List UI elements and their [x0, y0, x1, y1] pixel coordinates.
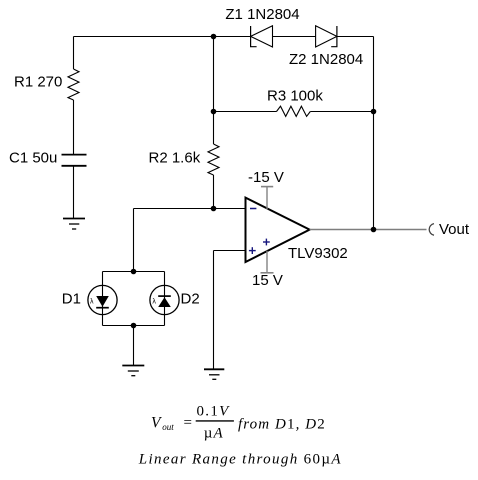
wire noninverting input horizontal: [214, 250, 246, 252]
wire R3 left segment: [214, 111, 277, 113]
ground under photodiodes: [122, 366, 144, 376]
wire left rail upper segment: [73, 37, 75, 70]
svg-text:from D1, D2: from D1, D2: [238, 416, 326, 432]
resistor R1 body: [68, 69, 79, 100]
port Vout arc: [429, 224, 434, 236]
op-amp negative supply pin: [261, 251, 274, 273]
photodiode D2 cathode bar: [158, 295, 171, 297]
ground at noninverting input: [204, 369, 224, 379]
wire D2 branch vertical: [164, 272, 166, 326]
photodiode D2 circle: [150, 285, 179, 314]
svg-text:-15 V: -15 V: [248, 169, 284, 186]
svg-text:15 V: 15 V: [252, 272, 283, 289]
node junction top of middle rail: [211, 34, 217, 40]
resistor R2 body: [208, 144, 219, 175]
node junction photodiode bottom rail: [131, 323, 137, 329]
svg-text:C1 50u: C1 50u: [9, 150, 57, 167]
op-amp noninverting input plus sign: [249, 247, 256, 254]
zener Z2 cathode bar: [331, 26, 337, 47]
wire noninverting input drop to ground: [213, 251, 215, 370]
svg-text:Vout: Vout: [439, 221, 470, 238]
wire inverting input horizontal: [134, 208, 246, 210]
wire bottom rail to ground: [133, 326, 135, 366]
svg-text:D2: D2: [181, 291, 200, 308]
node junction output feedback: [371, 227, 377, 233]
zener Z1 1N2804 triangle: [251, 26, 273, 47]
ground under C1: [63, 219, 85, 230]
svg-text:R2 1.6k: R2 1.6k: [149, 150, 201, 167]
svg-text:Z2 1N2804: Z2 1N2804: [289, 51, 363, 68]
wire photodiode top rail: [103, 271, 165, 273]
node junction R3 left: [211, 109, 217, 115]
wire top rail from R1 top to right rail: [74, 36, 374, 38]
svg-text:Linear Range through 60µA: Linear Range through 60µA: [138, 452, 342, 468]
wire drop to photodiode rail: [133, 209, 135, 272]
svg-text:Z1 1N2804: Z1 1N2804: [225, 6, 299, 23]
zener Z2 1N2804 triangle: [316, 26, 337, 47]
photodiode D1 cathode bar: [96, 307, 109, 309]
photodiode D1 circle: [88, 285, 117, 314]
wire C1 bottom to ground: [73, 167, 75, 219]
node junction R3 right on feedback rail: [371, 109, 377, 115]
svg-text:=: =: [184, 415, 192, 431]
svg-text:D1: D1: [62, 291, 81, 308]
zener Z1 cathode bar: [251, 26, 257, 47]
op-amp U1 triangle: [246, 198, 310, 262]
wire R3 right segment: [310, 111, 373, 113]
photodiode D2 triangle: [158, 297, 171, 307]
node junction inverting input: [211, 206, 217, 212]
photodiode D1 triangle: [96, 296, 109, 307]
wire D1 branch vertical: [102, 272, 104, 326]
op-amp inner plus sign: [263, 239, 270, 246]
wire right feedback rail: [373, 37, 375, 230]
wire photodiode bottom rail: [103, 325, 165, 327]
wire R1 bottom to C1 top: [73, 100, 75, 154]
node junction photodiode top rail: [131, 269, 137, 275]
resistor R3 body: [277, 106, 311, 116]
formula Vout = 0.1V/uA from D1, D2: [151, 404, 326, 442]
svg-text:λ: λ: [90, 298, 94, 305]
wire op-amp output: [310, 229, 427, 231]
svg-text:TLV9302: TLV9302: [288, 245, 348, 262]
svg-text:V: V: [151, 414, 162, 431]
svg-text:λ: λ: [152, 298, 156, 305]
svg-text:0.1V: 0.1V: [197, 404, 231, 420]
capacitor C1 plates: [62, 155, 87, 166]
wire R2 bottom to inverting node: [213, 175, 215, 209]
svg-text:µA: µA: [204, 425, 224, 441]
svg-text:R3 100k: R3 100k: [267, 88, 323, 105]
op-amp positive supply pin: [261, 187, 273, 210]
wire middle rail from top to R2: [213, 37, 215, 145]
svg-text:out: out: [162, 422, 174, 432]
svg-text:R1 270: R1 270: [14, 74, 62, 91]
op-amp inverting input minus sign: [250, 208, 256, 210]
